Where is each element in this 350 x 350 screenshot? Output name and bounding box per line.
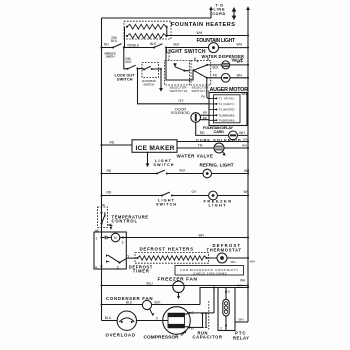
fountain light: [197, 38, 236, 53]
wire: fountain light to neutral WH: [219, 43, 250, 49]
svg-text:WH: WH: [242, 144, 247, 148]
diagnostic note box: [175, 266, 244, 276]
condenser fan: [100, 296, 200, 316]
svg-text:WH: WH: [197, 31, 203, 35]
wire: actuator out with down arrow: [152, 68, 163, 92]
svg-text:BLK: BLK: [111, 39, 118, 43]
svg-text:CORD: CORD: [212, 12, 225, 16]
svg-text:SWITCH: SWITCH: [117, 77, 133, 81]
run capacitor: [190, 286, 223, 339]
wire: hot row from left rail: [100, 43, 113, 49]
svg-text:CHECK 2450 OHMS: CHECK 2450 OHMS: [193, 271, 227, 275]
wire: lock out to actuator switch: [138, 68, 144, 70]
svg-text:GY: GY: [192, 190, 198, 194]
light switch (freezer): [100, 190, 176, 206]
wire: ice maker to neutral (top): [177, 137, 249, 142]
svg-text:RD: RD: [107, 190, 112, 194]
svg-text:WH: WH: [242, 92, 247, 96]
svg-text:WH: WH: [237, 73, 243, 77]
svg-text:TN: TN: [198, 144, 203, 148]
wire: RD/BLK node to light switch: [124, 42, 157, 48]
fountain heaters: [124, 21, 235, 39]
node: TO LINE CORD label: [212, 3, 225, 16]
wire: left supply rail: [101, 18, 103, 321]
svg-text:T4 (BROWN): T4 (BROWN): [218, 118, 234, 122]
ground arrow below ice maker: [146, 152, 150, 167]
wire: neutral rail bottom to PTC: [235, 318, 248, 322]
light switch (fountain): [153, 44, 206, 55]
svg-text:WH: WH: [244, 190, 250, 194]
freezer fan: [100, 277, 249, 300]
temperature control: [95, 203, 148, 233]
wire: top supply line to line cord: [102, 6, 213, 18]
svg-text:T1 (PINK): T1 (PINK): [218, 97, 234, 101]
svg-text:SWITCH: SWITCH: [156, 203, 176, 207]
wire: GY from lock out switch to delay card T2: [138, 69, 210, 104]
actuator switch: [142, 63, 159, 87]
svg-text:ICE MAKER: ICE MAKER: [136, 145, 175, 152]
svg-text:T2 (GRAY): T2 (GRAY): [218, 102, 234, 106]
cube solenoid: [196, 122, 248, 142]
water dispenser valve: [202, 54, 250, 70]
svg-text:WH: WH: [237, 60, 243, 64]
svg-text:BLU: BLU: [147, 281, 154, 285]
svg-text:CAPACITOR: CAPACITOR: [193, 335, 223, 340]
svg-text:RD: RD: [200, 131, 205, 135]
svg-text:4: 4: [95, 265, 97, 269]
svg-text:WH: WH: [239, 131, 245, 135]
wire: PK drop from selector to delay card T1: [201, 78, 209, 99]
svg-text:1: 1: [96, 236, 98, 240]
svg-text:BLK: BLK: [155, 300, 162, 304]
svg-text:BLK: BLK: [180, 168, 187, 172]
defrost timer: [94, 232, 153, 274]
svg-text:WH: WH: [237, 283, 242, 287]
wire: right neutral rail: [246, 6, 250, 322]
defrost thermostat: [207, 243, 255, 264]
svg-text:RD: RD: [110, 141, 115, 145]
interlock switch: [105, 44, 125, 59]
svg-text:WH: WH: [239, 318, 244, 322]
svg-text:T3 (WHITE): T3 (WHITE): [218, 108, 234, 112]
svg-text:SWITCH #1: SWITCH #1: [170, 89, 188, 93]
svg-text:WH: WH: [243, 137, 248, 141]
freezer light: [172, 190, 250, 208]
svg-text:WATER VALVE: WATER VALVE: [177, 154, 214, 159]
door solenoid: [171, 108, 210, 123]
svg-text:SOLENOID: SOLENOID: [171, 111, 190, 115]
svg-text:FOUNTAIN LIGHT: FOUNTAIN LIGHT: [197, 38, 236, 44]
svg-text:COMPRESSOR: COMPRESSOR: [144, 335, 180, 340]
svg-text:RELAY: RELAY: [233, 335, 249, 340]
wire: condenser fan line up to PTC top: [200, 283, 249, 304]
defrost heaters: [126, 246, 208, 263]
svg-text:BLK: BLK: [150, 42, 157, 46]
svg-text:CONDENSER FAN: CONDENSER FAN: [106, 296, 153, 301]
svg-text:FREEZER FAN: FREEZER FAN: [158, 277, 198, 283]
svg-text:RD/BLK: RD/BLK: [128, 43, 140, 47]
svg-text:CARD: CARD: [214, 130, 225, 134]
wire: drop to lock out switch RD/BLK: [124, 48, 133, 69]
svg-text:3: 3: [228, 290, 230, 294]
svg-text:TIMER: TIMER: [133, 269, 149, 274]
light switch (refrigerator): [100, 159, 173, 175]
svg-text:BLK: BLK: [174, 43, 181, 47]
wire: line cord double arrow: [232, 7, 237, 20]
svg-text:THERMOSTAT: THERMOSTAT: [207, 247, 242, 252]
svg-text:RD: RD: [107, 169, 112, 173]
svg-text:WH: WH: [199, 233, 205, 237]
selector switch #1: [165, 61, 190, 94]
svg-text:CONTROL: CONTROL: [112, 219, 138, 224]
svg-text:WH: WH: [231, 260, 236, 264]
svg-text:BLK: BLK: [213, 66, 220, 70]
wire: heater right to neutral WH: [167, 27, 249, 37]
selector switch #2: [191, 61, 211, 94]
svg-text:T5 (BROWN): T5 (BROWN): [218, 113, 234, 117]
svg-text:PK: PK: [201, 94, 205, 98]
svg-text:LIGHT SWITCH: LIGHT SWITCH: [166, 49, 206, 55]
wire: to fountain light BLK: [166, 43, 209, 48]
auger motor: [206, 73, 249, 93]
svg-text:RD: RD: [104, 43, 109, 47]
ice maker: [100, 140, 177, 153]
wire: light switch feed down to selector switches: [166, 48, 193, 81]
svg-text:SWITCH: SWITCH: [106, 55, 115, 59]
svg-text:2: 2: [220, 326, 222, 330]
refrigerator light: [167, 162, 250, 178]
svg-text:2: 2: [117, 265, 119, 269]
svg-text:3: 3: [122, 241, 124, 245]
svg-text:DEFROST HEATERS: DEFROST HEATERS: [140, 246, 194, 251]
water valve: [177, 143, 250, 159]
svg-text:REFRIG. LIGHT: REFRIG. LIGHT: [200, 162, 234, 167]
wire: heater left tap RD/BLK: [111, 27, 125, 48]
svg-text:BLU: BLU: [105, 316, 112, 320]
svg-text:WH: WH: [237, 43, 243, 47]
svg-text:SWITCH: SWITCH: [143, 82, 154, 86]
wire: selector box entry stubs: [169, 50, 208, 62]
PTC relay: [218, 288, 249, 341]
svg-text:GY: GY: [179, 99, 185, 103]
svg-text:BLK: BLK: [126, 60, 133, 64]
svg-text:WH: WH: [250, 260, 255, 264]
overload: [102, 311, 137, 338]
wire: timer T3 to neutral WH: [123, 233, 249, 238]
svg-text:WH: WH: [244, 169, 250, 173]
lock out switch: [115, 65, 139, 81]
svg-text:FOUNTAIN HEATERS: FOUNTAIN HEATERS: [171, 22, 235, 28]
fountain delay card: [203, 92, 247, 134]
svg-text:WH: WH: [240, 278, 246, 282]
svg-text:OVERLOAD: OVERLOAD: [106, 333, 136, 338]
compressor: [137, 307, 195, 340]
svg-text:M: M: [114, 236, 117, 240]
svg-text:SWITCH: SWITCH: [154, 163, 174, 167]
